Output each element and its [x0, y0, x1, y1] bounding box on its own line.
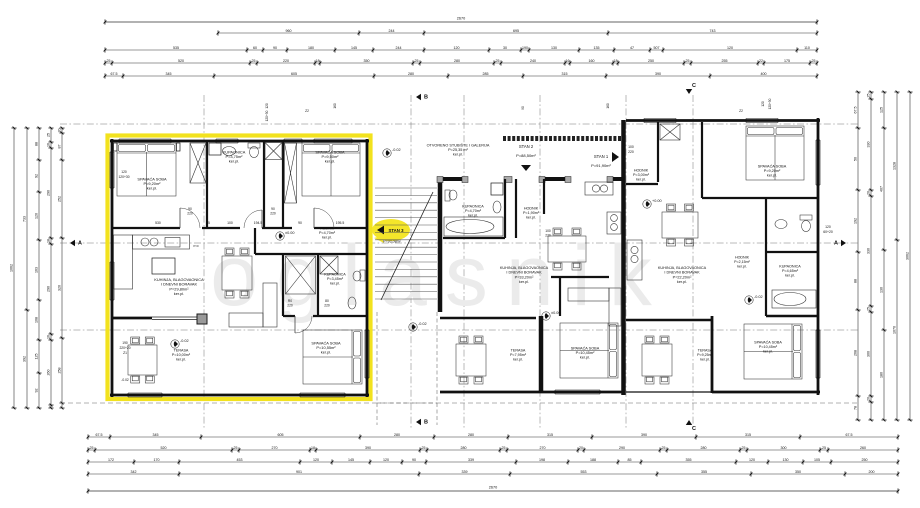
svg-text:16: 16 [47, 143, 51, 147]
svg-text:HODNIK: HODNIK [634, 168, 649, 172]
svg-text:220: 220 [324, 304, 330, 308]
wall stan1 bottom terrace [626, 391, 712, 393]
room label stan3 terrace [172, 348, 191, 361]
level marker stairs [383, 148, 401, 157]
svg-text:125: 125 [880, 107, 884, 113]
svg-text:280: 280 [461, 446, 467, 450]
svg-text:268: 268 [854, 350, 858, 356]
wall stan2 corridor top [437, 177, 625, 183]
svg-text:330: 330 [867, 248, 871, 254]
svg-text:P=9,20m²: P=9,20m² [764, 169, 781, 173]
dining table stan3 [222, 248, 252, 298]
svg-text:-0.02: -0.02 [754, 295, 763, 299]
svg-text:C: C [692, 83, 696, 89]
svg-text:280: 280 [468, 433, 474, 437]
marker STAN 3 yellow arrow [372, 219, 410, 244]
svg-text:130: 130 [551, 46, 557, 50]
svg-text:90: 90 [298, 221, 302, 225]
bed stan1 top [746, 126, 804, 180]
level marker stan1 [643, 199, 662, 208]
wall stan3 wardrobe left [282, 254, 284, 316]
svg-text:285: 285 [483, 72, 489, 76]
grid axis v2 B [410, 95, 412, 430]
svg-text:90: 90 [521, 106, 525, 110]
svg-text:87: 87 [58, 145, 62, 149]
room label stan3 hall [319, 226, 336, 239]
wall stan2 bottom [440, 391, 623, 394]
svg-text:Z2: Z2 [305, 109, 309, 113]
level marker stan2 terrace [409, 322, 427, 331]
highlight outline STAN 3 (yellow) [108, 136, 371, 400]
grid axis v1 [203, 95, 205, 430]
svg-text:18: 18 [311, 446, 315, 450]
svg-text:ker.pl.: ker.pl. [147, 186, 157, 191]
svg-text:220+20: 220+20 [119, 346, 130, 350]
svg-text:553: 553 [581, 470, 587, 474]
section marker B top [416, 94, 428, 101]
svg-text:901: 901 [296, 470, 302, 474]
svg-text:300: 300 [867, 351, 871, 357]
wall stan2 kitchen [543, 179, 545, 214]
room label stan1 hall2 [734, 255, 750, 268]
dimension line top row4 [104, 59, 819, 66]
room label stan2 living [500, 266, 549, 284]
svg-text:KUHINJA, BLAGOVAONICA: KUHINJA, BLAGOVAONICA [500, 266, 549, 270]
svg-text:400: 400 [761, 72, 767, 76]
dimension line left row4 [47, 127, 54, 410]
svg-text:25: 25 [822, 446, 826, 450]
svg-text:190: 190 [122, 341, 128, 345]
window stan3 top 3 [284, 139, 302, 143]
svg-text:B: B [424, 95, 428, 101]
svg-text:60+20: 60+20 [823, 230, 833, 234]
svg-text:20: 20 [58, 129, 62, 133]
dimension line bottom row3 [87, 458, 900, 465]
svg-text:20: 20 [579, 446, 583, 450]
svg-text:I DNEVNI BORAVAK: I DNEVNI BORAVAK [506, 271, 542, 275]
terrace table stan1 [642, 336, 672, 384]
grid axis v6 C [692, 95, 694, 430]
dimension line right row3 [880, 91, 887, 422]
svg-text:67.5: 67.5 [846, 433, 853, 437]
svg-text:220: 220 [270, 212, 276, 216]
svg-text:A: A [78, 241, 82, 247]
svg-text:342: 342 [131, 470, 137, 474]
window stan1 top 1 [644, 119, 676, 123]
grid axis h3 [60, 329, 858, 331]
kitchen stan1 counter [627, 240, 642, 280]
wall stan2/stan1 divide [621, 120, 626, 395]
svg-text:ker.pl.: ker.pl. [174, 291, 184, 296]
window stan3 left 2 [110, 262, 114, 300]
svg-text:733: 733 [23, 216, 27, 222]
terrace table stan3 [128, 337, 157, 383]
svg-text:I DNEVNI BORAVAK: I DNEVNI BORAVAK [664, 271, 700, 275]
svg-text:20: 20 [867, 191, 871, 195]
grid axis v3 [463, 95, 465, 430]
room label stan3 bedroom3 [311, 340, 341, 354]
dimension line top overall 2670 [104, 17, 819, 25]
level marker stan1 terrace [745, 295, 763, 304]
bed stan3 bedroom1 [117, 143, 176, 196]
svg-text:P=22,20m²: P=22,20m² [673, 275, 692, 279]
svg-text:-0.02: -0.02 [418, 322, 427, 326]
svg-text:520: 520 [161, 446, 167, 450]
svg-text:2670: 2670 [457, 17, 465, 21]
svg-text:25: 25 [107, 59, 111, 63]
dimension line right row2 [867, 91, 874, 422]
dimension line right row1 [854, 91, 861, 422]
svg-text:ker.pl.: ker.pl. [636, 178, 646, 182]
window stan3 right 1 [365, 330, 369, 378]
svg-text:P=25,35 m²: P=25,35 m² [448, 148, 468, 152]
svg-text:25: 25 [496, 59, 500, 63]
svg-text:TERASA: TERASA [511, 348, 526, 352]
level marker stan3 hall [276, 231, 295, 240]
svg-text:300: 300 [781, 446, 787, 450]
svg-text:KUHINJA, BLAGOVAONICA: KUHINJA, BLAGOVAONICA [658, 266, 707, 270]
svg-text:315: 315 [547, 433, 553, 437]
svg-text:ker.pl.: ker.pl. [526, 216, 536, 220]
svg-text:160: 160 [606, 103, 610, 109]
svg-text:P=3,45m²: P=3,45m² [327, 277, 344, 281]
stairs [375, 188, 437, 300]
room label stan1 bath [779, 264, 801, 277]
svg-text:2670: 2670 [489, 486, 497, 490]
label STAN 2 [516, 144, 536, 171]
section marker C bottom [686, 420, 696, 432]
svg-text:ker.pl.: ker.pl. [330, 282, 340, 286]
svg-text:145: 145 [348, 458, 354, 462]
wall stan2 bedroom top [551, 277, 609, 316]
svg-text:67.5: 67.5 [96, 433, 103, 437]
svg-text:530: 530 [155, 221, 161, 225]
svg-text:350: 350 [795, 470, 801, 474]
svg-text:345: 345 [166, 72, 172, 76]
svg-text:ker.pl.: ker.pl. [767, 174, 777, 178]
bed stan2 [560, 323, 618, 378]
svg-text:194.5: 194.5 [254, 221, 263, 225]
svg-text:120: 120 [265, 103, 269, 109]
svg-text:100: 100 [227, 221, 233, 225]
wall stan3 right [366, 139, 369, 397]
kitchen stan3 counter [114, 235, 190, 289]
svg-text:290: 290 [47, 286, 51, 292]
wall stan1 bedroom bottom [702, 197, 818, 199]
wall stan1 bottom [712, 391, 820, 394]
svg-text:78: 78 [854, 406, 858, 410]
svg-text:170: 170 [154, 458, 160, 462]
kitchen island stan3 [152, 258, 175, 274]
svg-text:120: 120 [121, 170, 127, 174]
svg-text:180: 180 [880, 372, 884, 378]
room label stan1 hall [633, 168, 650, 181]
svg-text:120: 120 [383, 458, 389, 462]
svg-text:135: 135 [594, 46, 600, 50]
svg-text:280: 280 [701, 446, 707, 450]
room label stan3 bath2 [324, 272, 346, 285]
room label stan2 bedroom [571, 345, 600, 359]
svg-text:220: 220 [283, 59, 289, 63]
svg-text:355: 355 [701, 470, 707, 474]
svg-text:315: 315 [562, 72, 568, 76]
wall stan3 terrace [113, 317, 152, 320]
svg-text:KUPAONICA: KUPAONICA [462, 204, 484, 208]
svg-text:25: 25 [867, 307, 871, 311]
sink stan3 bath1 [223, 147, 236, 156]
svg-text:ker.pl.: ker.pl. [519, 280, 529, 284]
svg-text:P=10,45m²: P=10,45m² [759, 345, 778, 349]
room label stan1 terrace [697, 348, 713, 361]
wall stan1 top [626, 119, 820, 122]
wall stan1 right [817, 118, 820, 395]
svg-text:P=10,45m²: P=10,45m² [576, 351, 595, 355]
svg-text:390: 390 [641, 433, 647, 437]
label STAN 1 [591, 152, 619, 168]
door stan3 bedroom2 [314, 208, 334, 228]
svg-text:250: 250 [862, 458, 868, 462]
svg-text:25: 25 [206, 221, 210, 225]
wall stan1 bath block [766, 198, 818, 316]
svg-text:25: 25 [422, 446, 426, 450]
svg-text:90: 90 [273, 46, 277, 50]
window stan3 left 1 [110, 152, 114, 188]
wall stan3 bedroom2 left [282, 141, 284, 228]
window stan1 top 2 [746, 119, 778, 123]
wall stan1 bedroom left [701, 122, 703, 198]
svg-text:HODNIK: HODNIK [524, 206, 539, 210]
svg-text:ker.pl.: ker.pl. [580, 356, 590, 360]
svg-text:18: 18 [47, 239, 51, 243]
dimension line right row5 [906, 91, 913, 422]
wall stan3 corridor [113, 227, 367, 229]
toilet stan3 bath2 [353, 270, 365, 281]
svg-text:192: 192 [854, 218, 858, 224]
room label stan1 bedroom top [758, 163, 787, 177]
svg-text:P=10,00m²: P=10,00m² [172, 353, 191, 357]
svg-text:STAN 2: STAN 2 [519, 144, 534, 149]
svg-text:105: 105 [814, 458, 820, 462]
svg-text:120+30: 120+30 [265, 110, 269, 121]
door stan3 bath [244, 210, 262, 228]
svg-text:175: 175 [784, 59, 790, 63]
bed stan3 bedroom3 [303, 330, 362, 384]
wall stairwell right [438, 180, 443, 312]
svg-text:-0.02: -0.02 [180, 339, 189, 343]
svg-text:345: 345 [153, 433, 159, 437]
svg-text:280: 280 [394, 433, 400, 437]
svg-text:392: 392 [23, 356, 27, 362]
svg-text:260: 260 [47, 370, 51, 376]
svg-text:25: 25 [662, 446, 666, 450]
svg-text:240: 240 [530, 59, 536, 63]
dimension line bottom row4 [87, 470, 900, 477]
svg-text:220: 220 [628, 150, 634, 154]
svg-text:30: 30 [503, 46, 507, 50]
dashed canopy stairs [377, 312, 437, 425]
svg-text:255: 255 [722, 59, 728, 63]
bed stan3 bedroom2 [302, 143, 360, 196]
svg-text:P=4,70m²: P=4,70m² [465, 209, 482, 213]
svg-text:ker.pl.: ker.pl. [468, 214, 478, 218]
svg-text:ker.pl.: ker.pl. [453, 153, 463, 157]
toilet stan2 [445, 190, 457, 201]
dim text stan2 doors [545, 145, 634, 238]
room label stan2 terrace [510, 348, 527, 361]
room label stan2 hall [523, 206, 540, 219]
svg-text:A: A [834, 241, 838, 247]
svg-text:25: 25 [502, 446, 506, 450]
svg-text:960: 960 [286, 29, 292, 33]
svg-text:22: 22 [759, 59, 763, 63]
svg-text:260: 260 [860, 446, 866, 450]
wall stan3 left [111, 139, 114, 397]
svg-text:KUPAONICA: KUPAONICA [779, 264, 801, 268]
svg-text:60: 60 [253, 46, 257, 50]
svg-text:320: 320 [58, 285, 62, 291]
svg-text:25: 25 [686, 59, 690, 63]
svg-text:92: 92 [35, 389, 39, 393]
room label stan3 bedroom1 [137, 176, 167, 190]
svg-text:163: 163 [35, 267, 39, 273]
dimension line bottom overall 2670 [87, 486, 900, 494]
svg-text:743: 743 [710, 29, 716, 33]
wall stan3 bottom [110, 394, 369, 397]
svg-text:80: 80 [325, 299, 329, 303]
svg-text:18: 18 [316, 59, 320, 63]
svg-text:C: C [692, 426, 696, 432]
svg-text:160: 160 [589, 59, 595, 63]
svg-text:±0.00: ±0.00 [285, 231, 294, 235]
wall stan1 terrace top [626, 319, 712, 321]
svg-text:18: 18 [614, 59, 618, 63]
svg-text:120: 120 [35, 213, 39, 219]
svg-text:250: 250 [648, 59, 654, 63]
grid axis h2 A [60, 242, 858, 244]
room label stan1 living [658, 266, 707, 284]
svg-text:108: 108 [35, 317, 39, 323]
svg-text:KUPAONICA: KUPAONICA [324, 272, 346, 276]
svg-text:16: 16 [566, 59, 570, 63]
svg-text:198: 198 [539, 458, 545, 462]
window stan3 top 1 [119, 139, 171, 143]
svg-text:88: 88 [35, 142, 39, 146]
dim text stan1 door [823, 225, 833, 234]
dimension line top row3 [104, 46, 819, 53]
svg-text:1328: 1328 [893, 162, 897, 170]
svg-text:315: 315 [745, 433, 751, 437]
svg-text:92: 92 [35, 174, 39, 178]
nightstand stan3 a [114, 143, 118, 151]
dimension line left overall [10, 127, 17, 410]
wardrobe stan3 bedroom2 [285, 143, 297, 203]
svg-text:25: 25 [252, 59, 256, 63]
label otvoreno stubiste [427, 142, 490, 156]
svg-text:25: 25 [90, 446, 94, 450]
shower stan3 [265, 143, 282, 160]
wall stan2 bedroom divide [539, 316, 544, 393]
svg-text:P=93,08m²: P=93,08m² [383, 240, 401, 244]
svg-text:ker.pl.: ker.pl. [325, 159, 335, 164]
window stan3 top 2 [216, 139, 238, 143]
svg-text:453: 453 [237, 458, 243, 462]
grid axis v5 [625, 95, 627, 430]
wall stan1 corridor [626, 122, 658, 184]
svg-text:120: 120 [454, 46, 460, 50]
dim text rotated top [265, 98, 772, 121]
svg-text:STAN 1: STAN 1 [594, 154, 609, 159]
sink stan2 [493, 201, 501, 213]
svg-text:390: 390 [655, 72, 661, 76]
wall stan3 bath2 left [317, 254, 319, 316]
svg-text:355: 355 [686, 458, 692, 462]
svg-text:P=9,25m²: P=9,25m² [697, 353, 713, 357]
wall stan3 lower block top [255, 253, 367, 255]
washer stan3 bath1 [209, 143, 221, 155]
toilet stan3 bath1 [248, 143, 260, 158]
sink stan3 bath2 [348, 297, 356, 309]
svg-text:280: 280 [408, 72, 414, 76]
svg-text:P=4,65m²: P=4,65m² [782, 269, 799, 273]
svg-text:SPAVAĆA SOBA: SPAVAĆA SOBA [571, 345, 600, 350]
svg-text:110: 110 [804, 46, 810, 50]
dining table stan2 [548, 228, 586, 270]
svg-text:90: 90 [271, 207, 275, 211]
svg-text:160: 160 [333, 103, 337, 109]
wall stan3 bedroom1/bath [206, 141, 208, 228]
svg-text:TERASA: TERASA [174, 348, 189, 352]
svg-text:120: 120 [749, 458, 755, 462]
svg-text:50: 50 [854, 157, 858, 161]
svg-text:85: 85 [628, 458, 632, 462]
room label stan2 bath [462, 204, 484, 217]
svg-text:605: 605 [278, 433, 284, 437]
svg-text:90: 90 [188, 207, 192, 211]
svg-text:520: 520 [178, 59, 184, 63]
shower stan3 bath2 [320, 256, 338, 274]
svg-text:120: 120 [313, 458, 319, 462]
window stan1 right 2 [816, 330, 820, 378]
svg-text:P=4,70m²: P=4,70m² [319, 231, 336, 235]
svg-text:TERASA: TERASA [698, 348, 713, 352]
svg-text:200: 200 [869, 470, 875, 474]
svg-text:120+30: 120+30 [768, 98, 772, 109]
svg-text:B: B [424, 420, 428, 426]
bathtub stan1 [772, 290, 816, 308]
svg-text:P=88,50m²: P=88,50m² [516, 153, 536, 158]
svg-text:100: 100 [545, 229, 551, 233]
svg-text:25: 25 [867, 94, 871, 98]
svg-text:ker.pl.: ker.pl. [321, 350, 331, 355]
svg-text:145: 145 [351, 46, 357, 50]
wall stan2 bath [443, 179, 516, 238]
svg-text:P=91,90m²: P=91,90m² [591, 163, 611, 168]
svg-text:20: 20 [867, 397, 871, 401]
svg-text:120: 120 [727, 46, 733, 50]
svg-text:220: 220 [287, 304, 293, 308]
window stan3 bottom 1 [128, 393, 162, 397]
wardrobe stan1 hall [660, 124, 680, 140]
svg-text:3062: 3062 [906, 252, 910, 260]
window stan3 top 4 [314, 139, 352, 143]
svg-text:25: 25 [47, 133, 51, 137]
svg-text:244: 244 [396, 46, 402, 50]
svg-text:P=0: P=0 [193, 244, 198, 248]
terrace edge stan3 [152, 317, 198, 320]
wardrobe stan3 bedroom1 [190, 143, 206, 183]
sofa stan3 [229, 283, 277, 327]
svg-text:ker.pl.: ker.pl. [785, 274, 795, 278]
